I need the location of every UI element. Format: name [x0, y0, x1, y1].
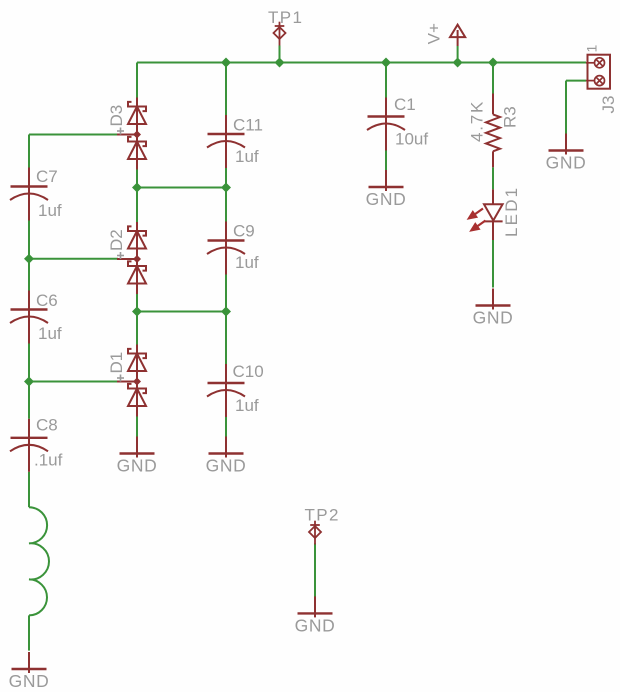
svg-text:1uf: 1uf	[235, 147, 259, 166]
svg-text:C9: C9	[233, 222, 255, 241]
svg-text:D3: D3	[107, 105, 126, 127]
svg-text:C8: C8	[36, 416, 58, 435]
svg-text:R3: R3	[501, 106, 520, 128]
svg-text:4.7K: 4.7K	[468, 100, 487, 142]
svg-text:1uf: 1uf	[235, 253, 259, 272]
svg-text:J3: J3	[599, 96, 618, 114]
svg-text:C11: C11	[233, 116, 263, 135]
svg-text:V+: V+	[424, 23, 443, 44]
svg-text:1uf: 1uf	[38, 201, 62, 220]
svg-text:1: 1	[584, 45, 600, 53]
svg-text:C10: C10	[233, 362, 264, 381]
svg-text:TP2: TP2	[305, 506, 340, 525]
svg-text:TP1: TP1	[268, 8, 303, 27]
svg-text:10uf: 10uf	[395, 130, 428, 149]
svg-text:C7: C7	[36, 167, 58, 186]
svg-text:1uf: 1uf	[38, 324, 62, 343]
svg-text:.1uf: .1uf	[34, 451, 63, 470]
svg-text:C1: C1	[394, 95, 416, 114]
svg-text:D2: D2	[107, 229, 126, 251]
svg-text:LED1: LED1	[502, 186, 521, 237]
svg-text:C6: C6	[36, 291, 58, 310]
svg-text:D1: D1	[107, 352, 126, 374]
svg-text:1uf: 1uf	[235, 396, 259, 415]
